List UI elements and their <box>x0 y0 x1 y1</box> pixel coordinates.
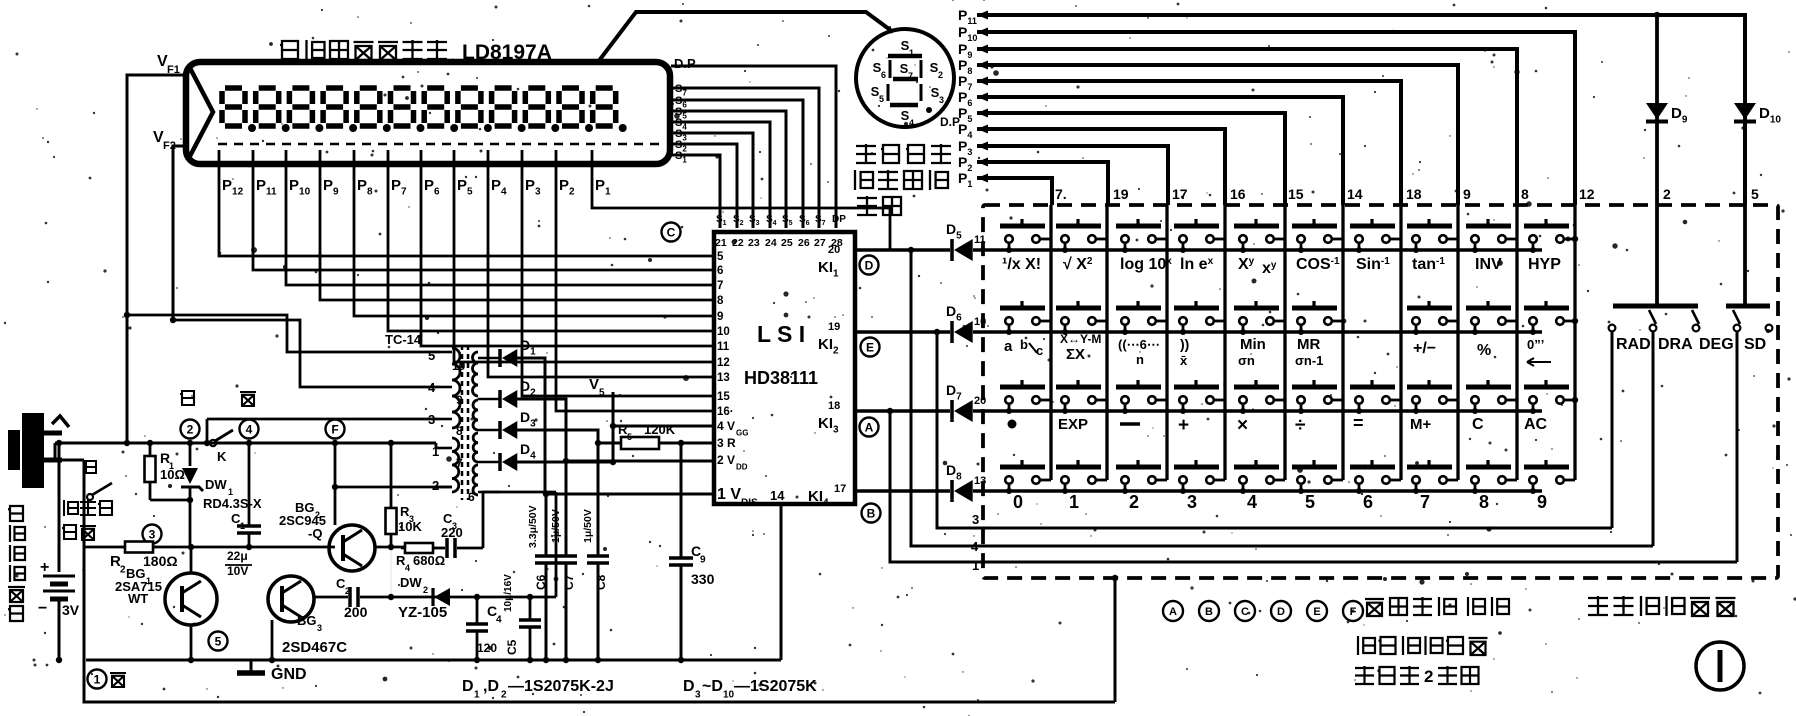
svg-text:12: 12 <box>717 357 730 369</box>
svg-text:4: 4 <box>971 539 979 554</box>
svg-text:E: E <box>866 340 874 354</box>
svg-text:÷: ÷ <box>1295 415 1305 436</box>
svg-text:25: 25 <box>781 237 793 249</box>
svg-text:L S I: L S I <box>757 321 805 347</box>
svg-text:2: 2 <box>432 478 439 493</box>
svg-text:C: C <box>1472 416 1484 433</box>
svg-text:120: 120 <box>477 641 497 655</box>
svg-text:8: 8 <box>717 295 724 307</box>
svg-text:8: 8 <box>1521 186 1529 202</box>
svg-text:680Ω: 680Ω <box>413 553 445 568</box>
svg-text:16·: 16· <box>717 406 734 418</box>
svg-text:MR: MR <box>1297 336 1320 353</box>
svg-text:6: 6 <box>1363 492 1373 512</box>
svg-text:D: D <box>683 678 695 695</box>
svg-text:5: 5 <box>1305 492 1315 512</box>
svg-text:BG: BG <box>297 613 317 628</box>
svg-text:B: B <box>867 506 876 520</box>
svg-text:X↔Y-M: X↔Y-M <box>1060 332 1101 346</box>
svg-text:8: 8 <box>1479 492 1489 512</box>
svg-text:3: 3 <box>972 512 979 527</box>
svg-text:+: + <box>1178 415 1189 436</box>
svg-text:D: D <box>1277 606 1285 618</box>
svg-text:C6: C6 <box>534 574 548 590</box>
svg-text:ΣX: ΣX <box>1066 346 1085 363</box>
svg-text:0: 0 <box>1013 492 1023 512</box>
svg-text:10V: 10V <box>227 564 248 578</box>
svg-text:log 10x: log 10x <box>1120 256 1172 273</box>
svg-text:4: 4 <box>246 422 253 436</box>
svg-text:11: 11 <box>717 341 730 353</box>
svg-text:AC: AC <box>1524 416 1548 433</box>
svg-text:YZ-105: YZ-105 <box>398 604 447 621</box>
svg-text:14: 14 <box>770 488 785 503</box>
svg-text:RD4.3S-X: RD4.3S-X <box>203 496 262 511</box>
svg-text:4: 4 <box>428 380 436 395</box>
svg-text:C: C <box>1241 606 1249 618</box>
svg-text:2: 2 <box>345 586 350 596</box>
svg-text:15: 15 <box>1288 186 1304 202</box>
svg-text:220: 220 <box>441 525 463 540</box>
svg-text:a: a <box>1004 338 1013 355</box>
svg-text:7: 7 <box>717 280 723 292</box>
svg-text:GND: GND <box>271 666 307 683</box>
svg-text:1: 1 <box>972 558 979 573</box>
svg-text:19: 19 <box>1113 186 1129 202</box>
svg-text:Min: Min <box>1240 336 1266 353</box>
svg-text:2: 2 <box>187 422 194 436</box>
svg-text:D.P: D.P <box>940 115 960 129</box>
svg-text:c: c <box>1036 343 1043 358</box>
svg-text:23: 23 <box>748 237 760 249</box>
svg-text:0”’: 0”’ <box>1527 337 1544 352</box>
svg-text:EXP: EXP <box>1058 416 1088 433</box>
svg-text:9: 9 <box>456 393 463 407</box>
svg-text:4 V: 4 V <box>717 419 735 433</box>
svg-text:C8: C8 <box>594 574 608 590</box>
svg-text:17: 17 <box>1172 186 1188 202</box>
svg-text:A: A <box>865 420 874 434</box>
svg-text:,D: ,D <box>483 678 499 695</box>
svg-text:16: 16 <box>1230 186 1246 202</box>
svg-text:5: 5 <box>215 634 222 648</box>
svg-text:TC-14: TC-14 <box>385 332 422 347</box>
svg-text:2: 2 <box>423 585 428 595</box>
svg-text:12: 12 <box>1579 186 1595 202</box>
svg-text:C: C <box>667 225 676 239</box>
svg-text:200: 200 <box>344 604 368 620</box>
svg-text:27: 27 <box>814 237 826 249</box>
svg-text:10: 10 <box>452 359 466 373</box>
svg-text:C7: C7 <box>562 574 576 590</box>
svg-text:V: V <box>589 376 599 393</box>
svg-text:10Ω: 10Ω <box>160 467 185 482</box>
svg-text:DW: DW <box>400 575 422 590</box>
svg-text:4: 4 <box>405 563 410 573</box>
svg-text:SD: SD <box>1744 336 1766 353</box>
svg-text:18: 18 <box>1406 186 1422 202</box>
svg-text:1 V: 1 V <box>717 486 741 503</box>
svg-text:HYP: HYP <box>1528 256 1561 273</box>
svg-text:x̄: x̄ <box>1180 353 1188 368</box>
svg-text:+: + <box>40 559 49 576</box>
svg-text:=: = <box>1353 413 1364 433</box>
svg-text:F: F <box>331 422 338 436</box>
svg-text:3: 3 <box>1187 492 1197 512</box>
svg-text:5: 5 <box>1751 186 1759 202</box>
svg-text:9: 9 <box>1537 492 1547 512</box>
svg-text:DP: DP <box>832 214 846 225</box>
svg-text:n: n <box>1136 352 1144 367</box>
svg-text:26: 26 <box>798 237 810 249</box>
svg-text:6: 6 <box>717 265 723 277</box>
svg-text:b: b <box>1020 337 1028 352</box>
svg-text:17: 17 <box>834 483 846 495</box>
svg-text:RAD: RAD <box>1616 336 1651 353</box>
svg-text:B: B <box>1205 606 1213 618</box>
svg-text:9: 9 <box>1463 186 1471 202</box>
svg-text:5: 5 <box>879 94 884 104</box>
svg-text:%: % <box>1477 342 1491 359</box>
svg-text:2SD467C: 2SD467C <box>282 639 347 656</box>
svg-text:2: 2 <box>1663 186 1671 202</box>
svg-text:10: 10 <box>717 326 730 338</box>
svg-text:2: 2 <box>1129 492 1139 512</box>
svg-text:1: 1 <box>240 521 245 531</box>
svg-text:σn: σn <box>1238 353 1255 368</box>
svg-text:24: 24 <box>765 237 777 249</box>
svg-text:—1S2075K-2J: —1S2075K-2J <box>508 678 614 695</box>
svg-text:10: 10 <box>723 690 735 701</box>
svg-text:1μ/50V: 1μ/50V <box>582 509 594 543</box>
svg-text:D: D <box>865 258 874 272</box>
svg-text:GG: GG <box>736 429 748 438</box>
svg-text:22μ: 22μ <box>227 549 248 563</box>
svg-text:5: 5 <box>717 251 724 263</box>
svg-text:DEG: DEG <box>1699 336 1734 353</box>
svg-text:8: 8 <box>456 424 463 438</box>
svg-text:2: 2 <box>1424 667 1433 686</box>
svg-text:1: 1 <box>94 672 101 686</box>
svg-text:6: 6 <box>468 490 475 504</box>
svg-text:9: 9 <box>700 555 706 566</box>
svg-text:E: E <box>1313 606 1320 618</box>
svg-text:13: 13 <box>717 372 730 384</box>
svg-text:21: 21 <box>715 237 727 249</box>
svg-text:19: 19 <box>828 321 840 333</box>
svg-text:)): )) <box>1180 336 1189 352</box>
svg-text:3: 3 <box>149 527 156 541</box>
svg-text:DD: DD <box>736 463 748 472</box>
svg-text:((⋯6⋯: ((⋯6⋯ <box>1118 337 1160 352</box>
svg-text:7: 7 <box>1420 492 1430 512</box>
svg-text:K: K <box>217 449 227 464</box>
svg-text:2: 2 <box>938 70 943 80</box>
svg-text:1: 1 <box>1069 492 1079 512</box>
svg-text:6: 6 <box>881 70 886 80</box>
svg-text:3.3μ/50V: 3.3μ/50V <box>527 505 539 548</box>
svg-text:DW: DW <box>205 477 227 492</box>
svg-text:2 V: 2 V <box>717 453 735 467</box>
svg-text:3 R: 3 R <box>717 436 736 450</box>
svg-text:5: 5 <box>599 388 605 399</box>
svg-text:15: 15 <box>717 391 730 403</box>
svg-text:-Q: -Q <box>308 526 322 541</box>
svg-text:7: 7 <box>456 456 463 470</box>
svg-text:4: 4 <box>496 615 502 626</box>
svg-text:180Ω: 180Ω <box>143 553 178 569</box>
svg-text:120K: 120K <box>644 422 676 437</box>
svg-text:+/−: +/− <box>1413 340 1436 357</box>
svg-text:~D: ~D <box>702 678 723 695</box>
svg-text:10μ/16V: 10μ/16V <box>503 574 514 612</box>
svg-text:3: 3 <box>939 95 944 105</box>
svg-text:4: 4 <box>909 118 914 128</box>
svg-text:D.P: D.P <box>674 56 696 71</box>
svg-text:×: × <box>1237 415 1248 436</box>
svg-text:330: 330 <box>691 571 715 587</box>
svg-text:M+: M+ <box>1410 416 1431 433</box>
svg-text:2: 2 <box>501 690 507 701</box>
svg-text:WT: WT <box>128 591 148 606</box>
svg-text:1: 1 <box>474 690 480 701</box>
svg-text:DIS: DIS <box>741 498 758 509</box>
svg-text:DRA: DRA <box>1658 336 1693 353</box>
svg-text:14: 14 <box>1347 186 1363 202</box>
svg-text:5: 5 <box>627 432 632 442</box>
svg-text:—1S2075K: —1S2075K <box>734 678 817 695</box>
svg-text:20: 20 <box>828 244 840 256</box>
svg-text:4: 4 <box>1247 492 1257 512</box>
svg-text:−: − <box>38 600 47 617</box>
svg-text:D: D <box>462 678 474 695</box>
svg-text:σn-1: σn-1 <box>1295 353 1323 368</box>
svg-text:5: 5 <box>428 348 435 363</box>
svg-text:A: A <box>1169 606 1177 618</box>
svg-text:18: 18 <box>828 400 840 412</box>
svg-text:3: 3 <box>317 623 322 633</box>
svg-text:3: 3 <box>695 690 701 701</box>
svg-text:3V: 3V <box>62 602 80 618</box>
svg-text:HD38111: HD38111 <box>744 368 818 388</box>
svg-text:9: 9 <box>717 311 723 323</box>
svg-text:C5: C5 <box>505 639 519 655</box>
svg-text:7.: 7. <box>1055 186 1067 202</box>
svg-text:¹/x X!: ¹/x X! <box>1002 256 1041 273</box>
